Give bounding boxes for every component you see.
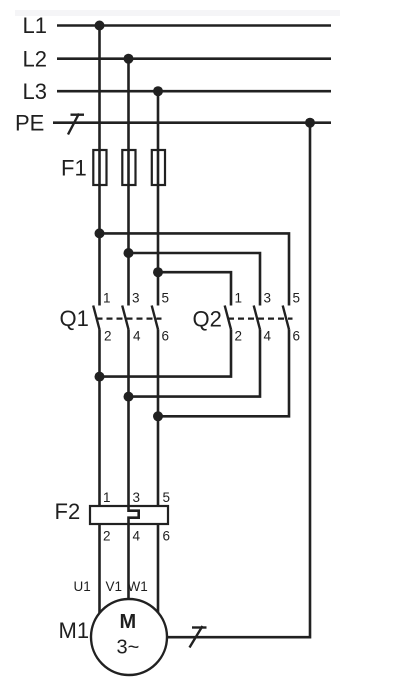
svg-text:L3: L3 [23,79,47,104]
wire L3 bus [57,90,331,93]
pin 1 Q1 [103,291,111,306]
pin 6 Q1 [162,329,170,344]
motor M1 text 3~ [117,637,140,659]
junction node phase1 top crossover [95,228,105,238]
contactor Q2 label [193,307,222,332]
wire phase 2 vertical (L2 to Q1 pole 2) [127,59,130,306]
contactor Q2 pole 1 contact blade [225,306,231,330]
pin 5 F2 [163,490,171,505]
svg-text:3: 3 [132,291,140,306]
svg-text:PE: PE [15,111,44,136]
svg-text:1: 1 [103,490,111,505]
pin 3 F2 [133,490,141,505]
wire Q2 pole 1 bottom to phase 1 [100,329,232,376]
svg-text:3: 3 [133,490,141,505]
svg-text:1: 1 [235,291,243,306]
node label PE [15,111,44,136]
wire Q2 pole 2 bottom to phase 2 [129,329,261,396]
node label L1 [23,13,47,38]
pin 1 Q2 [235,291,243,306]
svg-text:5: 5 [162,291,170,306]
svg-text:L1: L1 [23,13,47,38]
contactor Q2 pole 2 contact blade [254,306,260,330]
terminal label W1 [128,579,148,594]
pin 2 Q1 [104,329,112,344]
pin 6 Q2 [293,329,301,344]
pin 5 Q1 [162,291,170,306]
wire PE bus [53,121,331,124]
svg-text:1: 1 [103,291,111,306]
wire phase 3 vertical (L3 to Q1 pole 3) [157,91,160,305]
pin 1 F2 [103,490,111,505]
junction node phase3 top crossover [153,267,163,277]
pin 3 Q1 [132,291,140,306]
svg-text:5: 5 [293,291,301,306]
svg-text:F2: F2 [55,499,81,524]
svg-text:L2: L2 [23,47,47,72]
wire Q2 pole 3 bottom to phase 3 [158,329,289,416]
junction L3 [153,86,163,96]
fuse group label F1 [61,156,87,181]
contactor Q1 mechanical linkage (dashed) [97,318,162,320]
svg-text:4: 4 [133,329,141,344]
pin 4 F2 [133,529,141,544]
svg-text:6: 6 [162,329,170,344]
contactor Q1 label [60,306,89,331]
wire phase 2 with F2 thermal element [129,329,139,599]
svg-text:3~: 3~ [117,637,140,659]
pin 4 Q1 [133,329,141,344]
wire crossover L3 to Q2 pole 1 top [158,272,231,305]
junction node phase3 bottom crossover [153,411,163,421]
svg-text:W1: W1 [128,579,148,594]
fuse F1 pole 1 [93,150,106,185]
pin 2 F2 [103,529,111,544]
wire phase 1 vertical (L1 to Q1 pole 1) [98,26,101,306]
terminal label V1 [106,579,123,594]
fuse F1 pole 2 [122,150,135,185]
junction L1 [95,21,105,31]
svg-text:6: 6 [293,329,301,344]
wire PE vertical [168,123,311,638]
node label L2 [23,47,47,72]
overload relay F2 label [55,499,81,524]
pin 3 Q2 [264,291,272,306]
wire phase 3 (F2 to motor W1) [157,524,160,613]
PE conductor symbol [68,114,84,135]
pin 4 Q2 [264,329,272,344]
junction node phase2 bottom crossover [124,392,134,402]
junction L2 [124,54,134,64]
pin 2 Q2 [235,329,243,344]
wire L1 bus [57,24,331,27]
svg-text:4: 4 [133,529,141,544]
motor M1 label [59,618,90,643]
svg-text:2: 2 [103,529,111,544]
wire phase 3 (Q1 to F2) [157,329,160,506]
wire phase 1 (Q1 to F2) [98,329,101,506]
junction PE [305,118,315,128]
wire phase 1 (F2 to motor U1) [98,524,101,613]
svg-text:M: M [120,611,137,633]
svg-text:3: 3 [264,291,272,306]
wire crossover L2 to Q2 pole 2 top [129,253,261,306]
junction node phase2 top crossover [124,248,134,258]
overload relay F2 body [90,506,168,524]
contactor Q1 pole 1 contact blade [93,306,99,330]
motor M1 body [91,599,167,675]
wire L2 bus [57,57,331,60]
contactor Q2 mechanical linkage (dashed) [228,318,293,320]
svg-text:5: 5 [163,490,171,505]
node label L3 [23,79,47,104]
PE conductor symbol at motor [190,626,207,648]
svg-text:6: 6 [163,529,171,544]
junction node phase1 bottom crossover [95,372,105,382]
fuse F1 pole 3 [152,150,165,185]
contactor Q1 pole 3 contact blade [152,306,158,330]
pin 5 Q2 [293,291,301,306]
contactor Q1 pole 2 contact blade [122,306,128,330]
svg-text:2: 2 [104,329,112,344]
svg-text:2: 2 [235,329,243,344]
terminal label U1 [74,579,91,594]
motor M1 text M [120,611,137,633]
svg-text:M1: M1 [59,618,90,643]
svg-text:4: 4 [264,329,272,344]
svg-text:F1: F1 [61,156,87,181]
wire crossover L1 to Q2 pole 3 top [100,233,290,305]
svg-text:U1: U1 [74,579,91,594]
contactor Q2 pole 3 contact blade [283,306,289,330]
svg-text:V1: V1 [106,579,123,594]
svg-text:Q2: Q2 [193,307,222,332]
pin 6 F2 [163,529,171,544]
svg-text:Q1: Q1 [60,306,89,331]
